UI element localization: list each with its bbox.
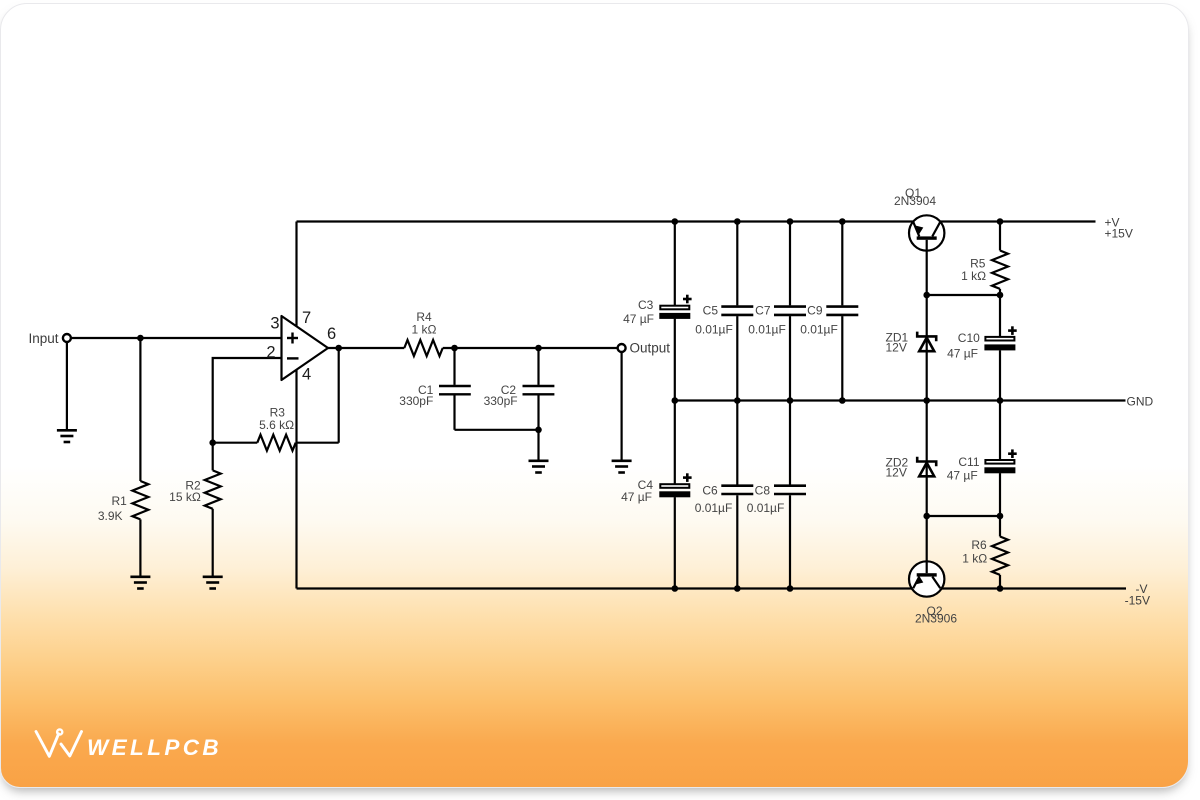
resistor R2 <box>205 443 221 576</box>
svg-text:Output: Output <box>630 341 671 356</box>
wire: R6 top <box>999 516 1001 537</box>
svg-text:5.6 kΩ: 5.6 kΩ <box>259 418 294 432</box>
junction: C1/C2 bottom node <box>535 427 542 434</box>
wire: C1 top <box>453 348 455 385</box>
junction: top rail taps <box>672 218 1004 225</box>
junction: -V rail taps <box>672 585 1004 592</box>
op-amp - symbol <box>287 357 299 359</box>
wire: Q1 base to R5 link <box>927 294 1000 296</box>
wire: feedback horizontal <box>213 442 258 444</box>
junction: output node <box>335 345 342 352</box>
capacitor C3 (polarized) <box>660 306 689 310</box>
wire: inverting input net <box>213 358 282 443</box>
wire: -V bottom rail <box>297 587 1127 589</box>
ground (R1) <box>130 577 150 589</box>
transistor Q1 <box>909 215 944 250</box>
capacitor C5 <box>721 307 753 315</box>
wire: input terminal to ground <box>66 342 68 429</box>
junction: Q1 base node <box>923 292 930 299</box>
capacitor C9 <box>826 307 858 315</box>
svg-text:+15V: +15V <box>1105 227 1133 241</box>
svg-text:R6: R6 <box>971 538 987 552</box>
ground (R2) <box>203 577 223 589</box>
capacitor C2 <box>523 386 555 394</box>
wire: op-amp pin 7 to +V rail <box>295 222 297 333</box>
wire: input to op-amp +in <box>71 337 282 339</box>
resistor R1 <box>132 338 148 576</box>
op-amp + symbol <box>287 333 298 344</box>
svg-text:7: 7 <box>302 309 311 327</box>
wire: C1 bottom <box>453 395 455 429</box>
svg-text:47 µF: 47 µF <box>947 469 978 483</box>
junction: C11 bottom node <box>997 513 1004 520</box>
svg-text:330pF: 330pF <box>484 394 518 408</box>
wire: C1/C2 bottom link <box>455 429 539 431</box>
svg-text:15 kΩ: 15 kΩ <box>169 490 201 504</box>
wire: C10 column <box>999 295 1001 336</box>
ground (input) <box>57 430 77 442</box>
ground (output) <box>612 461 632 473</box>
svg-text:C6: C6 <box>702 484 718 498</box>
wire: output terminal to ground <box>620 352 622 460</box>
wire: C7/C8 column <box>789 222 791 306</box>
wire: C2 top <box>537 348 539 385</box>
svg-text:12V: 12V <box>886 340 907 354</box>
wire: C5/C6 column <box>736 222 738 306</box>
svg-text:3: 3 <box>270 315 279 333</box>
junction: C2 top node <box>535 345 542 352</box>
svg-text:47 µF: 47 µF <box>947 347 978 361</box>
svg-text:1 kΩ: 1 kΩ <box>962 551 987 565</box>
node: Output terminal <box>618 344 626 352</box>
junction: ZD2 bottom node <box>923 513 930 520</box>
svg-text:C10: C10 <box>958 331 980 345</box>
junction: R4/C1 node <box>451 345 458 352</box>
wire: Q2 base drop <box>926 516 928 573</box>
svg-text:0.01µF: 0.01µF <box>747 501 785 515</box>
svg-text:C9: C9 <box>807 304 823 318</box>
junction: feedback node <box>209 439 216 446</box>
capacitor C10 (polarized) <box>985 337 1014 341</box>
node: Input terminal <box>63 334 71 342</box>
svg-text:1 kΩ: 1 kΩ <box>412 322 437 336</box>
svg-text:0.01µF: 0.01µF <box>800 323 838 337</box>
wire: GND rail <box>675 399 1126 401</box>
svg-text:2N3904: 2N3904 <box>894 194 936 208</box>
op-amp U1 <box>282 316 329 380</box>
svg-text:-15V: -15V <box>1125 593 1150 607</box>
svg-text:0.01µF: 0.01µF <box>748 323 786 337</box>
svg-text:R1: R1 <box>112 494 128 508</box>
svg-text:C7: C7 <box>755 304 771 318</box>
wire: +V top rail <box>297 220 1096 222</box>
wire: ZD1 column <box>926 295 928 401</box>
svg-text:GND: GND <box>1127 394 1154 408</box>
svg-text:C3: C3 <box>638 298 654 312</box>
svg-text:2: 2 <box>266 344 275 362</box>
zener diode ZD1 <box>917 332 936 352</box>
junction: GND rail taps <box>672 397 1004 404</box>
svg-text:47 µF: 47 µF <box>623 312 654 326</box>
wire: C9 column <box>841 222 843 306</box>
wire: C1/C2 to ground <box>537 430 539 460</box>
ground (C1/C2) <box>529 461 549 473</box>
wire: R6 bottom <box>999 575 1001 589</box>
svg-text:0.01µF: 0.01µF <box>695 323 733 337</box>
resistor R5 <box>992 251 1008 289</box>
svg-text:330pF: 330pF <box>399 394 433 408</box>
svg-text:C8: C8 <box>755 484 771 498</box>
wire: ZD2/C11 bottom link <box>927 515 1000 517</box>
capacitor C1 <box>439 386 471 394</box>
svg-text:4: 4 <box>302 366 311 384</box>
wire: output net <box>328 347 404 349</box>
wire: C3/C4 column <box>674 222 676 306</box>
svg-text:6: 6 <box>327 325 336 343</box>
wire: R5 top <box>999 222 1001 251</box>
capacitor C11 (polarized) <box>985 460 1014 464</box>
zener diode ZD2 <box>917 457 936 477</box>
capacitor C7 <box>774 307 806 315</box>
svg-text:0.01µF: 0.01µF <box>695 501 733 515</box>
svg-text:1 kΩ: 1 kΩ <box>961 269 986 283</box>
svg-text:Input: Input <box>28 331 58 346</box>
svg-text:2N3906: 2N3906 <box>915 611 957 625</box>
capacitor C6 <box>721 486 753 494</box>
wire: C2 bottom <box>537 395 539 429</box>
transistor Q2 <box>909 561 944 596</box>
wire: R5 bottom <box>999 289 1001 295</box>
junction: R5 bottom node <box>997 292 1004 299</box>
resistor R6 <box>992 537 1008 575</box>
svg-text:C5: C5 <box>703 304 719 318</box>
junction: R1 top <box>137 335 144 342</box>
capacitor C8 <box>774 486 806 494</box>
svg-text:C11: C11 <box>958 455 979 469</box>
svg-text:12V: 12V <box>886 466 907 480</box>
resistor R4 <box>404 340 442 356</box>
wire: ZD2 column <box>926 401 928 517</box>
svg-text:3.9K: 3.9K <box>98 509 123 523</box>
wire: C11 column <box>999 401 1001 460</box>
wire: feedback output drop <box>338 348 340 443</box>
capacitor C4 (polarized) <box>660 484 689 488</box>
svg-text:47 µF: 47 µF <box>621 490 652 504</box>
wire: op-amp pin 4 down <box>295 348 297 589</box>
resistor R3 <box>257 435 295 451</box>
